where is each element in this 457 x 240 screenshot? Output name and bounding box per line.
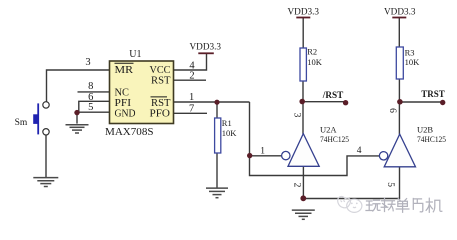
svg-text:8: 8 <box>88 81 93 92</box>
svg-text:5: 5 <box>385 182 395 187</box>
svg-text:Sm: Sm <box>15 118 28 128</box>
svg-text:1: 1 <box>189 92 194 103</box>
svg-text:U2A: U2A <box>320 124 337 134</box>
svg-text:/RST: /RST <box>322 90 344 100</box>
svg-text:R2: R2 <box>307 46 317 56</box>
svg-text:3: 3 <box>85 57 90 68</box>
wire U1 pin4 VCC to VDD3.3 <box>174 54 207 71</box>
svg-text:10K: 10K <box>222 128 238 138</box>
svg-text:R3: R3 <box>405 47 415 57</box>
node TRST label end <box>440 100 445 105</box>
junction node PFI/GND <box>74 110 79 115</box>
wire gnd stub below PFI junction <box>76 112 78 123</box>
svg-text:74HC125: 74HC125 <box>320 134 349 144</box>
resistor R2 <box>300 46 323 81</box>
svg-text:3: 3 <box>291 113 301 118</box>
svg-text:TRST: TRST <box>421 89 445 99</box>
junction node /RST <box>299 99 305 105</box>
ground below U2A pin2 <box>292 210 315 219</box>
junction node R1 top <box>214 100 219 105</box>
wire pin6 PFI to gnd junction <box>79 101 110 112</box>
chip U1 body MAX708S <box>105 49 174 138</box>
junction node U2A pin2 ground <box>300 195 306 201</box>
U1 pin name MR (overline) <box>115 63 134 76</box>
ground below R1 <box>206 188 228 198</box>
svg-text:2: 2 <box>189 71 194 82</box>
wire /RST junction to U2A pin3 apex <box>302 102 304 135</box>
wire R1 bottom to ground <box>216 153 218 188</box>
wire pin5 GND <box>77 111 110 113</box>
wire pin7 stub <box>174 112 208 114</box>
svg-text:5: 5 <box>88 102 93 113</box>
wire switch bottom to ground <box>45 135 47 177</box>
svg-text:MR: MR <box>115 65 134 76</box>
wire U1 pin3 to switch (MR net) <box>47 70 110 102</box>
svg-text:VDD3.3: VDD3.3 <box>384 7 416 17</box>
svg-text:10K: 10K <box>307 57 323 67</box>
wire pin8 stub <box>78 91 110 93</box>
svg-text:74HC125: 74HC125 <box>417 134 446 144</box>
resistor R1 <box>215 118 238 153</box>
wire U1 pin1 RST- net to vertical <box>174 101 250 103</box>
svg-text:R1: R1 <box>222 118 232 128</box>
wire /RST label stub <box>302 101 345 103</box>
wire to U2A pin1 bubble <box>250 155 282 157</box>
wire junction to R1 top <box>216 102 218 118</box>
U1 pin name RST- (overline) <box>151 97 171 109</box>
svg-text:2: 2 <box>292 183 302 188</box>
wire R3 bottom to TRST junction <box>398 79 400 102</box>
wire TRST junction to U2B pin6 apex <box>398 102 400 135</box>
svg-text:7: 7 <box>189 103 194 114</box>
svg-text:VDD3.3: VDD3.3 <box>190 41 222 51</box>
wire TRST label stub <box>400 101 444 103</box>
svg-text:MAX708S: MAX708S <box>105 127 154 138</box>
resistor R3 <box>396 47 420 79</box>
wire VDD3.3 to R3 top <box>398 18 400 47</box>
svg-text:RST: RST <box>151 98 171 109</box>
junction node U2A pin1 <box>247 153 252 158</box>
svg-text:4: 4 <box>357 146 362 156</box>
wire bypass to U2B pin4 <box>250 156 380 176</box>
svg-text:RST: RST <box>151 75 171 86</box>
ground below switch <box>33 178 58 187</box>
wire U2A pin2 to gnd junction <box>302 166 304 198</box>
wire R2 bottom to /RST junction <box>302 81 304 102</box>
svg-text:6: 6 <box>387 108 397 113</box>
wire gnd junction to U2B pin5 <box>303 167 399 199</box>
node /RST label end <box>343 100 348 105</box>
op-amp buffer U2A 74HC125 <box>282 124 349 166</box>
watermark text 玩转单片机 <box>366 198 442 212</box>
svg-text:10K: 10K <box>405 57 421 67</box>
svg-text:1: 1 <box>260 146 265 156</box>
svg-text:PFI: PFI <box>115 98 132 109</box>
svg-text:U1: U1 <box>129 49 141 60</box>
watermark logo <box>338 197 362 213</box>
wire VDD3.3 to R2 top <box>302 18 304 48</box>
op-amp buffer U2B 74HC125 <box>379 124 446 166</box>
ground below U1 GND pin <box>66 125 89 133</box>
svg-text:VDD3.3: VDD3.3 <box>288 7 320 17</box>
wire pin2 stub <box>174 79 207 81</box>
svg-text:U2B: U2B <box>417 124 433 134</box>
svg-text:PFO: PFO <box>150 109 171 120</box>
junction node TRST <box>397 99 403 105</box>
wire vertical down to U2A pin1 row <box>249 102 251 156</box>
power VDD3.3 above R3 <box>384 7 416 18</box>
power VDD3.3 above R2 <box>288 7 320 18</box>
svg-text:GND: GND <box>115 109 136 120</box>
power VDD3.3 above U1 <box>190 41 222 53</box>
switch Sm pushbutton <box>33 102 49 135</box>
